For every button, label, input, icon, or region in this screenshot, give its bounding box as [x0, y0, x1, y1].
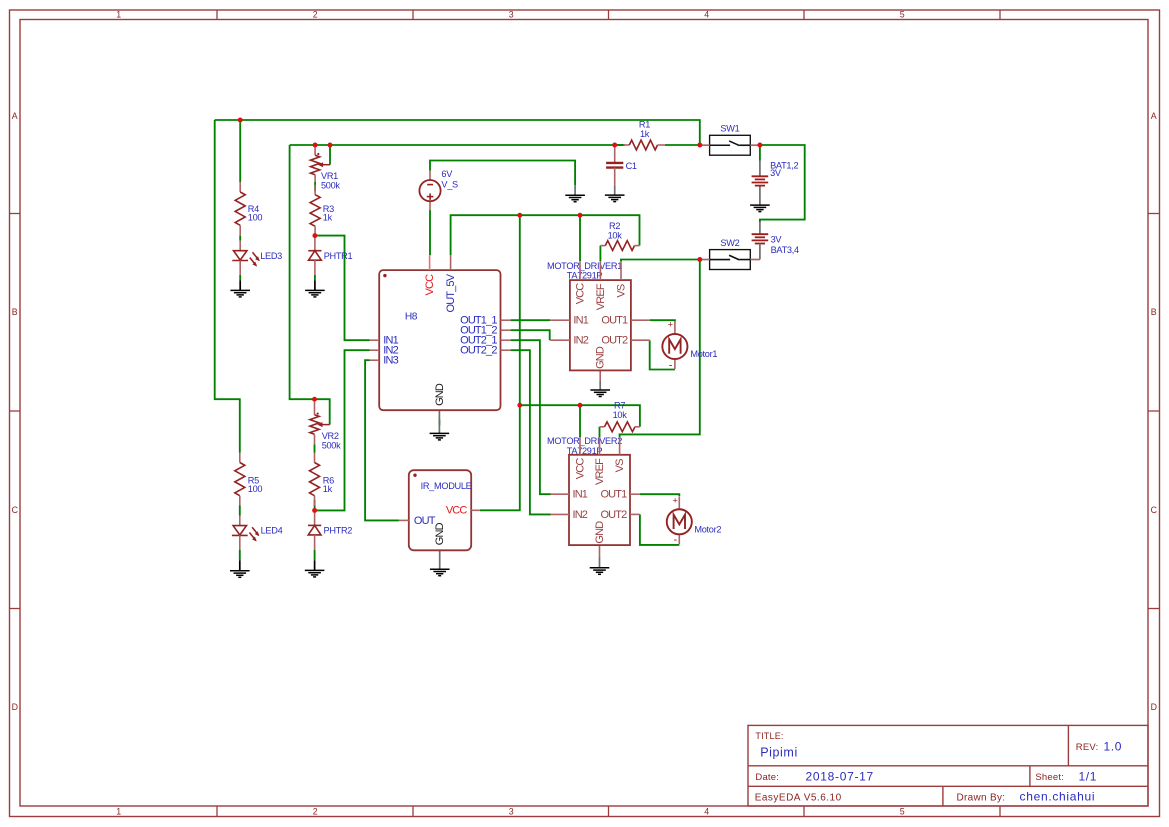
pin SW2 left [700, 259, 710, 261]
svg-text:SW2: SW2 [720, 238, 739, 248]
svg-text:VCC: VCC [575, 458, 587, 480]
pin H8 OUT1_1 [460, 315, 510, 327]
wire H8 OUT1_2 to MD1 IN2 [511, 330, 550, 340]
pin SW2 right [750, 259, 760, 261]
ground under PHTR2 [305, 560, 325, 577]
battery BAT3,4 3V [752, 222, 799, 260]
svg-text:A: A [1151, 111, 1157, 121]
pin MD2 OUT2 [600, 509, 639, 521]
junction SW1 left [697, 143, 702, 148]
wire H8 OUT2_1 to MD2 IN1 [511, 340, 551, 494]
pin MD2 OUT1 [600, 489, 639, 501]
resistor R2 [600, 221, 639, 251]
svg-text:OUT2_2: OUT2_2 [460, 345, 497, 357]
junction C1/R1 [612, 143, 617, 148]
junction R4 top [238, 118, 243, 123]
svg-text:PHTR2: PHTR2 [324, 526, 353, 536]
svg-text:VREF: VREF [595, 283, 607, 310]
svg-text:BAT3,4: BAT3,4 [771, 245, 799, 255]
junction SW2 left [697, 257, 702, 262]
svg-text:OUT: OUT [414, 515, 436, 527]
pin H8 GND [434, 383, 446, 406]
wire LED3 to ground link [239, 275, 241, 281]
wire MD2 OUT2 to Motor2 minus [640, 514, 679, 545]
wire 5V col down to R7 rail and IR VCC [480, 215, 520, 510]
ground under IR_MODULE [430, 550, 450, 575]
capacitor C1 [606, 145, 637, 185]
svg-text:+: + [668, 320, 673, 330]
svg-text:1: 1 [116, 9, 121, 19]
wire R4 branch drop [239, 120, 241, 182]
pin IR VCC [446, 505, 480, 517]
svg-text:1k: 1k [323, 213, 333, 223]
svg-text:OUT_5V: OUT_5V [445, 273, 457, 312]
resistor R5 [235, 453, 263, 506]
junction VR2 top [312, 397, 317, 402]
wire MD1 OUT2 to Motor1 minus [650, 340, 675, 369]
motor Motor2 [667, 495, 722, 546]
svg-text:10k: 10k [608, 231, 623, 241]
svg-text:5: 5 [900, 806, 905, 816]
svg-text:IN1: IN1 [573, 315, 588, 327]
svg-text:2: 2 [313, 9, 318, 19]
resistor R7 [600, 401, 640, 432]
wire H8 GND link [438, 420, 440, 426]
pin MD1 VS [616, 261, 628, 297]
svg-text:1/1: 1/1 [1079, 770, 1097, 784]
svg-text:GND: GND [434, 383, 446, 406]
IR module U4 body [409, 470, 472, 550]
svg-text:V_S: V_S [441, 179, 458, 189]
wire MD1 VCC drop [579, 215, 581, 261]
resistor R3 [310, 185, 334, 236]
pin H8 OUT1_2 [460, 325, 510, 337]
wire node A R3-PHTR1 to H8 IN1 [315, 236, 370, 341]
wire H8 IN3 to IR_MODULE OUT [365, 360, 399, 520]
pin H8 OUT2_2 [460, 345, 510, 357]
svg-text:Date:: Date: [755, 772, 779, 783]
pin SW1 left [700, 144, 710, 146]
svg-text:2018-07-17: 2018-07-17 [806, 770, 874, 784]
junction VR1 wiper tap [328, 143, 333, 148]
phototransistor PHTR1 [308, 236, 352, 275]
svg-text:VS: VS [616, 284, 628, 297]
svg-text:+: + [673, 495, 678, 505]
svg-text:MOTOR_DRIVER1: MOTOR_DRIVER1 [547, 261, 622, 271]
wire OUT_5V rail [451, 215, 640, 255]
svg-text:6V: 6V [441, 169, 453, 179]
motor driver U3 MOTOR_DRIVER2 body [547, 436, 630, 545]
wire R1 right to SW1 [665, 144, 700, 146]
svg-text:VREF: VREF [594, 458, 606, 485]
svg-text:C: C [12, 505, 19, 515]
svg-text:B: B [12, 307, 18, 317]
pin MD2 GND [594, 521, 606, 544]
junction R3/PHTR1 [312, 233, 317, 238]
svg-text:TA7291P: TA7291P [567, 271, 603, 281]
svg-text:LED3: LED3 [260, 251, 282, 261]
potentiometer VR1 [311, 145, 341, 191]
junction SW1 right [757, 143, 762, 148]
svg-text:R2: R2 [609, 221, 620, 231]
svg-text:OUT1: OUT1 [601, 315, 628, 327]
pin H8 IN1 [370, 335, 399, 347]
svg-text:TITLE:: TITLE: [755, 731, 783, 741]
svg-text:IN1: IN1 [573, 489, 588, 501]
ground under MOTOR_DRIVER1 [590, 370, 610, 396]
svg-text:100: 100 [248, 213, 263, 223]
title block [748, 725, 1148, 806]
wire VR2 to R6 link [314, 444, 316, 452]
ground under C1 [605, 185, 625, 201]
wire VR rail drop to VR2 rail [290, 145, 330, 425]
battery BAT1,2 3V [752, 160, 799, 185]
LED4 [232, 516, 283, 551]
svg-text:5: 5 [900, 9, 905, 19]
phototransistor PHTR2 [308, 510, 352, 550]
pin MD2 VS [614, 437, 626, 472]
svg-text:GND: GND [594, 521, 606, 544]
junction R7 rail left [517, 403, 522, 408]
resistor R4 [235, 182, 262, 235]
svg-text:3: 3 [509, 806, 514, 816]
wire VR1 to R3 link [314, 182, 316, 191]
wire LED4 to ground link [239, 550, 241, 560]
pin MD1 GND [595, 346, 607, 369]
svg-text:chen.chiahui: chen.chiahui [1020, 790, 1096, 804]
svg-text:1k: 1k [640, 129, 650, 139]
pin MD1 IN2 [550, 335, 589, 347]
wire H8 OUT2_2 to MD2 IN2 [511, 350, 551, 514]
wire MD1 OUT1 to Motor1 plus [650, 320, 675, 321]
svg-text:10k: 10k [613, 410, 628, 420]
junction MD2 VCC tap [578, 403, 583, 408]
pin IR OUT [399, 515, 436, 527]
svg-text:500k: 500k [322, 441, 341, 451]
svg-text:R7: R7 [614, 401, 625, 411]
svg-text:500k: 500k [321, 181, 340, 191]
wire R7 rail [520, 405, 640, 427]
svg-text:3: 3 [509, 9, 514, 19]
wire SW2 net down to MD2 VS [620, 260, 700, 438]
svg-text:TA7291P: TA7291P [567, 446, 603, 456]
wire top rail from left rail to SW1 [215, 120, 700, 145]
wire V_S plus to H8 VCC [429, 210, 431, 255]
svg-text:3V: 3V [770, 168, 782, 178]
svg-text:SW1: SW1 [720, 124, 739, 134]
svg-text:VCC: VCC [424, 274, 436, 296]
pin MD2 VCC [575, 437, 587, 479]
svg-text:VCC: VCC [575, 283, 587, 305]
wire PHTR1 to ground link [314, 275, 316, 281]
LED3 [232, 241, 282, 275]
svg-text:100: 100 [248, 484, 263, 494]
wire R5 to LED4 link [239, 506, 241, 516]
resistor R1 [615, 120, 665, 150]
switch SW2 [710, 238, 751, 269]
svg-text:IN2: IN2 [573, 509, 588, 521]
svg-text:1k: 1k [323, 484, 333, 494]
svg-text:1.0: 1.0 [1104, 740, 1122, 754]
pin MD2 IN2 [551, 509, 588, 521]
op-amp U1 H8 body [379, 270, 500, 410]
svg-text:A: A [12, 111, 18, 121]
voltage source V_S 6V [419, 169, 458, 210]
ground under LED4 [230, 560, 250, 577]
svg-text:R1: R1 [639, 120, 650, 130]
pin MD1 VREF [595, 261, 607, 310]
ground near V_S [565, 185, 585, 202]
ground under H8 [430, 410, 450, 440]
svg-text:C1: C1 [626, 161, 637, 171]
svg-text:GND: GND [595, 346, 607, 369]
svg-text:IR_MODULE: IR_MODULE [421, 481, 472, 491]
svg-text:Motor2: Motor2 [694, 524, 721, 534]
svg-text:3V: 3V [771, 235, 783, 245]
pin MD1 IN1 [550, 315, 589, 327]
svg-text:Motor1: Motor1 [690, 349, 717, 359]
pin MD1 VCC [575, 261, 587, 304]
svg-text:PHTR1: PHTR1 [324, 251, 353, 261]
svg-text:2: 2 [313, 806, 318, 816]
pin SW1 right [750, 144, 760, 146]
wire R4 to LED3 link [239, 235, 241, 240]
junction VR1 top [313, 143, 318, 148]
svg-text:Pipimi: Pipimi [760, 746, 798, 760]
motor Motor1 [662, 320, 717, 372]
wire MD2 VCC drop [579, 405, 581, 437]
svg-text:REV:: REV: [1076, 742, 1099, 753]
svg-text:H8: H8 [405, 312, 418, 323]
svg-text:D: D [12, 702, 18, 712]
ground under BAT1,2 [750, 186, 770, 212]
wire left rail down to R5 branch [215, 120, 240, 453]
switch SW1 [710, 124, 751, 156]
wire VR rail y145 to R1 [290, 144, 625, 146]
svg-text:B: B [1151, 307, 1157, 317]
wire R2 left to MD1 VREF [599, 246, 601, 262]
svg-text:OUT2: OUT2 [601, 335, 628, 347]
motor driver U2 MOTOR_DRIVER1 body [547, 261, 631, 371]
svg-text:VR1: VR1 [321, 171, 338, 181]
resistor R6 [310, 453, 335, 506]
pin MD2 VREF [594, 437, 606, 485]
svg-text:VCC: VCC [446, 505, 468, 517]
pin MD1 OUT2 [601, 335, 649, 347]
pin H8 IN3 [370, 355, 399, 367]
svg-text:OUT2: OUT2 [600, 509, 627, 521]
wire SW1 right to right rail [760, 145, 805, 222]
wire MD2 OUT1 to Motor2 plus [640, 494, 679, 496]
ground under LED3 [230, 280, 250, 297]
svg-text:D: D [1151, 702, 1157, 712]
svg-text:1: 1 [116, 806, 121, 816]
pin MD1 OUT1 [601, 315, 649, 327]
svg-text:Drawn By:: Drawn By: [957, 793, 1006, 804]
wire V_S minus to ground [430, 161, 575, 186]
svg-text:IN3: IN3 [383, 355, 398, 367]
svg-text:C: C [1151, 505, 1158, 515]
svg-text:VS: VS [614, 459, 626, 472]
svg-text:4: 4 [704, 806, 709, 816]
wire SW1 right to BAT1,2 [759, 145, 761, 161]
pin H8 VCC [424, 255, 436, 295]
wire R6 to PHTR2 junction link [314, 500, 316, 510]
junction OUT_5V col1 [517, 213, 522, 218]
wire MD1 VS to SW2 [621, 260, 700, 262]
wire H8 OUT1_1 to MD1 IN1 [511, 319, 551, 321]
svg-text:MOTOR_DRIVER2: MOTOR_DRIVER2 [547, 436, 622, 446]
pin H8 OUT_5V [445, 255, 457, 312]
pin MD2 IN1 [551, 489, 588, 501]
svg-text:4: 4 [704, 9, 709, 19]
potentiometer VR2 [310, 399, 341, 450]
svg-text:GND: GND [434, 522, 446, 545]
ground under MOTOR_DRIVER2 [590, 545, 610, 574]
svg-text:EasyEDA V5.6.10: EasyEDA V5.6.10 [755, 793, 842, 804]
pin H8 IN2 [370, 345, 399, 357]
svg-text:Sheet:: Sheet: [1035, 772, 1064, 783]
svg-text:LED4: LED4 [261, 526, 283, 536]
wire VR1 wiper drop [329, 145, 331, 165]
pin IR GND [434, 522, 446, 545]
wire node R6-PHTR2 to H8 IN2 [315, 350, 370, 510]
svg-text:IN2: IN2 [573, 335, 588, 347]
junction MD1 VCC tap [578, 213, 583, 218]
svg-text:OUT1: OUT1 [600, 489, 627, 501]
pin H8 OUT2_1 [460, 335, 510, 347]
svg-text:VR2: VR2 [322, 431, 339, 441]
ground under PHTR1 [305, 280, 325, 297]
wire PHTR2 to ground link [314, 550, 316, 560]
wire R7 left to MD2 VREF [599, 427, 601, 438]
junction R6/PHTR2 [312, 508, 317, 513]
